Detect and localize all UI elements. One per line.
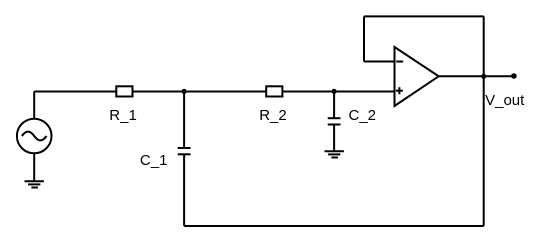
wire node A down to C1 (183, 92, 185, 149)
svg-text:C_1: C_1 (140, 152, 168, 169)
wire feedback top horizontal (364, 15, 484, 17)
wire C1 bottom to feedback loop (183, 154, 185, 226)
wire source top vertical (33, 92, 35, 119)
wire R1 to node A (133, 91, 184, 93)
node A junction (182, 89, 187, 94)
wire feedback left vertical (363, 16, 365, 61)
node B junction (332, 89, 337, 94)
ground GND2 (325, 151, 344, 157)
wire output down right vertical (483, 76, 485, 226)
wire node B down to C2 (333, 92, 335, 119)
op-amp U1 triangle (395, 47, 439, 106)
wire bottom feedback horizontal (184, 225, 484, 227)
resistor R1 (116, 86, 132, 96)
wire op-amp output (439, 75, 484, 77)
wire minus input stub (364, 61, 395, 63)
svg-text:C_2: C_2 (349, 107, 377, 124)
capacitor C1 (178, 148, 191, 154)
wire source bottom vertical to ground (33, 154, 35, 181)
wire R2 to node B (283, 91, 334, 93)
node output junction (481, 74, 486, 79)
capacitor C2 (328, 118, 341, 124)
svg-text:R_1: R_1 (109, 107, 137, 124)
ac source V1 circle (17, 119, 52, 154)
wire node B to op-amp plus input (334, 91, 394, 93)
op-amp plus sign (396, 87, 403, 94)
wire C2 bottom to ground (333, 125, 335, 152)
wire node A to R2 (184, 91, 266, 93)
svg-text:V_out: V_out (485, 92, 525, 109)
wire top-left horizontal to R1 (34, 91, 115, 93)
terminal V_out dot (511, 73, 517, 79)
ground GND1 (25, 181, 44, 187)
ac source V1 sine wave (22, 132, 47, 141)
wire output to terminal (484, 75, 512, 77)
resistor R2 (266, 86, 282, 96)
wire feedback right vertical from top to output (483, 16, 485, 76)
op-amp minus sign (396, 61, 403, 63)
svg-text:R_2: R_2 (259, 107, 287, 124)
